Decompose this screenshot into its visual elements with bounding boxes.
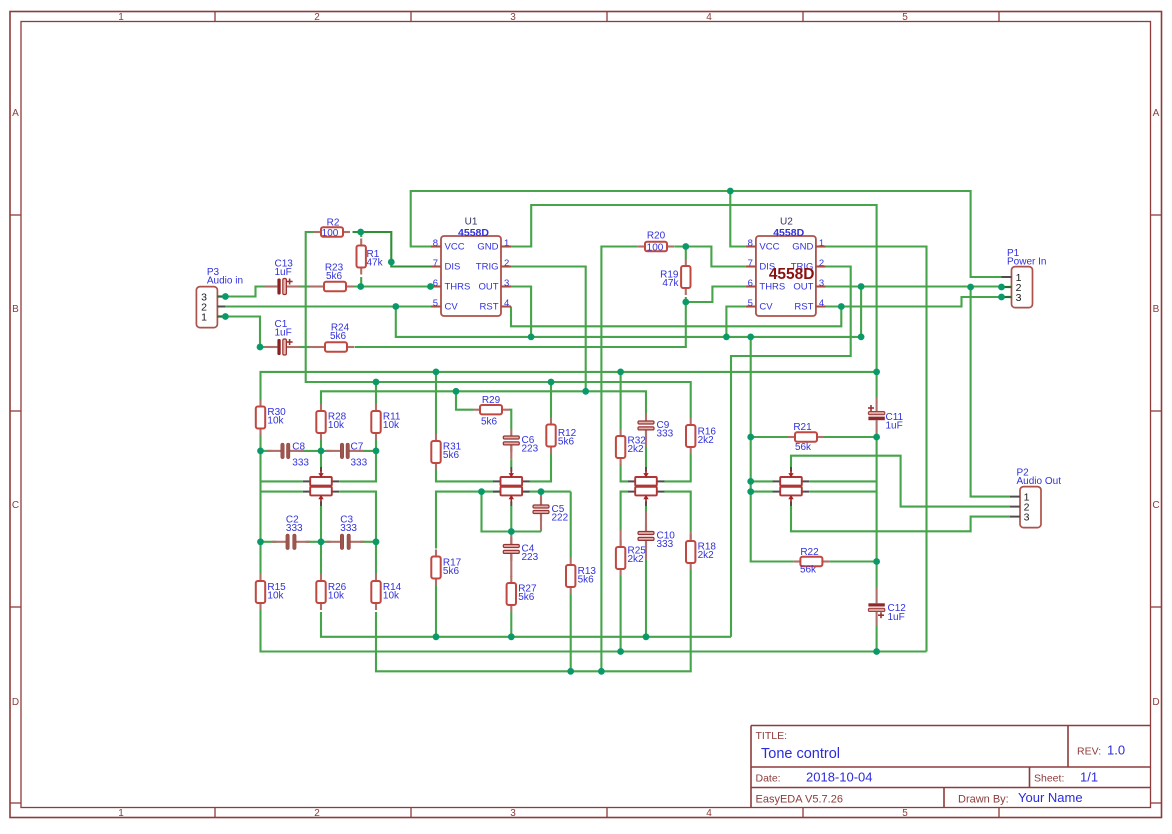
wire R26 riser xyxy=(320,542,322,574)
resistor R21 xyxy=(788,432,824,441)
wire pot3 bottom wiper to C10 xyxy=(645,506,647,512)
svg-text:2k2: 2k2 xyxy=(698,550,715,561)
svg-text:56k: 56k xyxy=(795,442,812,453)
svg-text:47k: 47k xyxy=(662,278,679,289)
node Hb right end xyxy=(858,334,865,341)
wire R17 bottom riser xyxy=(435,586,437,637)
wire R24 left lead xyxy=(309,346,318,348)
wire U2 OUT riser to Hb xyxy=(860,287,862,337)
svg-text:B: B xyxy=(1153,304,1160,315)
wire He tap R11 xyxy=(375,382,377,405)
svg-text:C7: C7 xyxy=(351,442,364,453)
node pot4 top left xyxy=(747,478,754,485)
node R1 bottom xyxy=(357,283,364,290)
node R19 top xyxy=(682,243,689,250)
svg-text:1: 1 xyxy=(201,311,207,323)
wire pot1 top right xyxy=(340,451,377,482)
svg-text:222: 222 xyxy=(552,513,569,524)
svg-text:GND: GND xyxy=(477,241,498,252)
svg-text:CV: CV xyxy=(759,301,773,312)
svg-text:5k6: 5k6 xyxy=(578,575,595,586)
svg-text:R21: R21 xyxy=(793,422,812,433)
node P1 pin2 column xyxy=(967,284,974,291)
wire U1 OUT riser xyxy=(511,287,531,337)
node He R11 xyxy=(373,379,380,386)
svg-text:56k: 56k xyxy=(800,565,817,576)
node rail671 R20col xyxy=(598,668,605,675)
svg-text:Date:: Date: xyxy=(756,773,781,785)
wire C11 bottom to R21 xyxy=(876,434,878,589)
potentiometer RP1 xyxy=(303,467,340,506)
wire C4 to R27 lead xyxy=(510,554,512,578)
svg-text:THRS: THRS xyxy=(759,281,785,292)
resistor R19 xyxy=(681,259,690,295)
capacitor C9 xyxy=(638,414,654,437)
node U1 THRS xyxy=(427,283,434,290)
wire R20 right to U2 DIS xyxy=(674,247,746,267)
wire pot1 bottom right xyxy=(340,492,377,542)
wire pot4 bottom left xyxy=(751,491,774,493)
wire U2 VCC riser xyxy=(730,191,746,247)
resistor R18 xyxy=(686,534,695,570)
svg-text:GND: GND xyxy=(792,241,813,252)
svg-text:3: 3 xyxy=(1024,511,1030,523)
wire R16 bottom to pot3 right xyxy=(664,454,691,481)
node U2 RST xyxy=(838,303,845,310)
wire U2 RST to P1 pin3 xyxy=(826,297,1002,307)
wire Hd rail R30 to C11 column xyxy=(261,372,877,400)
wire rail 671 xyxy=(376,570,691,671)
wire C2 row left xyxy=(261,541,277,543)
wire R1 top lead join xyxy=(360,232,362,237)
wire rail 637 xyxy=(321,612,731,637)
resistor R27 xyxy=(507,576,516,612)
svg-text:6: 6 xyxy=(748,278,753,289)
capacitor C5 xyxy=(533,498,549,521)
wire U2 CV riser xyxy=(726,307,746,337)
svg-text:4: 4 xyxy=(504,298,509,309)
potentiometer RP3 xyxy=(628,467,665,506)
svg-text:R20: R20 xyxy=(647,231,666,242)
resistor R16 xyxy=(686,418,695,454)
svg-text:Your Name: Your Name xyxy=(1018,790,1083,805)
node C2 C3 mid xyxy=(318,538,325,545)
wire Hb to R22 left column xyxy=(751,337,794,562)
resistor R25 xyxy=(616,540,625,576)
svg-text:2k2: 2k2 xyxy=(698,435,715,446)
svg-text:100: 100 xyxy=(322,228,339,239)
svg-text:8: 8 xyxy=(433,238,438,249)
wire C9 bottom lead xyxy=(645,430,647,447)
wire C10 bottom riser xyxy=(645,560,647,637)
resistor R2 xyxy=(314,227,350,236)
svg-text:7: 7 xyxy=(748,258,753,269)
wire R2 right to U1 DIS (dark) xyxy=(353,232,432,267)
svg-text:5k6: 5k6 xyxy=(330,331,347,342)
svg-text:223: 223 xyxy=(522,552,539,563)
wire R11 bottom join xyxy=(375,440,377,451)
node rail637 R27 xyxy=(508,633,515,640)
svg-text:10k: 10k xyxy=(267,416,284,427)
wire Hd tap R32 xyxy=(620,372,622,429)
svg-text:333: 333 xyxy=(292,458,309,469)
wire R22 right xyxy=(829,560,876,562)
wire R24 to R19 bottom xyxy=(355,287,746,348)
node R19 bottom xyxy=(682,299,689,306)
wire C9 bottom to pot3 wiper xyxy=(645,447,647,468)
node pot2 wiper xyxy=(508,528,515,535)
svg-text:Power In: Power In xyxy=(1007,257,1046,268)
svg-text:10k: 10k xyxy=(328,591,345,602)
resistor R24 xyxy=(318,342,354,351)
wire C5 bottom loop xyxy=(482,492,542,532)
connector P3 xyxy=(196,287,225,328)
resistor R13 xyxy=(566,558,575,594)
svg-text:5: 5 xyxy=(902,808,908,819)
wire pot1 bottom wiper xyxy=(320,506,322,542)
capacitor C2 xyxy=(272,534,310,550)
wire P1 pin2 column to P2 pin1 xyxy=(971,287,1010,497)
capacitor C4 xyxy=(503,538,519,561)
svg-text:1: 1 xyxy=(118,808,124,819)
op-amp U2 xyxy=(746,236,826,316)
resistor R30 xyxy=(256,400,265,436)
node P3 pin1 xyxy=(222,313,229,320)
resistor R32 xyxy=(616,429,625,465)
svg-text:10k: 10k xyxy=(267,591,284,602)
wire C5 bottom lead xyxy=(540,514,542,532)
svg-text:R22: R22 xyxy=(800,547,819,558)
wire pot2 bottom row xyxy=(436,492,571,549)
svg-text:Sheet:: Sheet: xyxy=(1034,773,1064,785)
svg-text:RST: RST xyxy=(480,301,499,312)
svg-text:1uF: 1uF xyxy=(888,612,905,623)
potentiometer RP2 xyxy=(493,467,530,506)
svg-text:333: 333 xyxy=(351,458,368,469)
wire R15 riser xyxy=(259,542,261,574)
node Hf R29 xyxy=(453,388,460,395)
wire U2 TRIG to Hc to rail 637 xyxy=(731,267,851,637)
node U1 OUT riser xyxy=(528,334,535,341)
wire U1 RST to Ha to U2 RST xyxy=(511,307,841,327)
resistor R29 xyxy=(473,405,509,414)
node C2 left xyxy=(257,538,264,545)
svg-text:2: 2 xyxy=(314,808,320,819)
node C1 corner xyxy=(257,344,264,351)
node U2 CV riser xyxy=(723,334,730,341)
svg-text:1/1: 1/1 xyxy=(1080,770,1098,785)
wire pot2 top right to R12 xyxy=(529,454,551,482)
wire C8 row left xyxy=(261,450,272,452)
svg-text:3: 3 xyxy=(510,808,516,819)
resistor R11 xyxy=(371,404,380,440)
node rail651 R25 xyxy=(617,648,624,655)
resistor R26 xyxy=(316,574,325,610)
wire R27 bottom riser xyxy=(510,612,512,637)
svg-text:5k6: 5k6 xyxy=(443,450,460,461)
wire R25 bottom riser xyxy=(620,576,622,652)
wire R19 bottom lead join xyxy=(685,297,687,302)
wire C5 top lead xyxy=(540,492,542,505)
svg-text:2: 2 xyxy=(504,258,509,269)
svg-text:2: 2 xyxy=(819,258,824,269)
svg-text:REV:: REV: xyxy=(1077,746,1101,758)
svg-text:10k: 10k xyxy=(383,591,400,602)
svg-text:1: 1 xyxy=(504,238,509,249)
resistor R20 xyxy=(638,242,674,251)
wire bottom rail 651 xyxy=(261,610,927,652)
wire C13 to R23 xyxy=(299,285,310,287)
wire R29 right to C6 xyxy=(509,410,511,430)
svg-text:4: 4 xyxy=(706,12,712,23)
node rail637 C10 xyxy=(643,633,650,640)
svg-text:100: 100 xyxy=(647,243,664,254)
node He R12 xyxy=(548,379,555,386)
wire Hd tap R31 xyxy=(435,372,437,434)
svg-text:333: 333 xyxy=(340,523,357,534)
capacitor C11 xyxy=(868,397,885,434)
wire R21 left xyxy=(751,436,789,438)
svg-text:D: D xyxy=(12,697,19,708)
node P1 pin2 xyxy=(998,284,1005,291)
capacitor C8 xyxy=(267,443,304,459)
svg-text:3: 3 xyxy=(504,278,509,289)
svg-text:C8: C8 xyxy=(292,442,305,453)
svg-text:U2: U2 xyxy=(780,216,793,227)
wire pot3 bottom left to R25 xyxy=(621,492,628,530)
svg-text:4558D: 4558D xyxy=(773,227,804,239)
potentiometer RP4 xyxy=(773,467,810,506)
wire R2 left to He rail to R16 xyxy=(306,232,691,418)
svg-text:3: 3 xyxy=(1016,292,1022,304)
node R22 right xyxy=(873,558,880,565)
node R21 left xyxy=(747,434,754,441)
svg-text:1uF: 1uF xyxy=(886,421,903,432)
capacitor C13 xyxy=(265,279,301,295)
svg-text:47k: 47k xyxy=(367,258,384,269)
wire C4 top lead xyxy=(510,532,512,545)
op-amp U1 xyxy=(431,236,511,316)
svg-text:D: D xyxy=(1152,697,1159,708)
svg-text:DIS: DIS xyxy=(445,261,461,272)
wire C12 bottom to rail xyxy=(876,626,878,652)
node U2 VCC rail xyxy=(727,188,734,195)
svg-text:2k2: 2k2 xyxy=(628,554,645,565)
wire VCC rail H1 xyxy=(411,191,1002,277)
node C3 right xyxy=(373,538,380,545)
svg-text:8: 8 xyxy=(748,238,753,249)
wire P3 pin1 to C1 xyxy=(225,317,266,348)
capacitor C7 xyxy=(326,443,363,459)
wire R21 right xyxy=(824,436,877,438)
node pot2 row left xyxy=(478,488,485,495)
wire R20 left long column xyxy=(601,247,638,672)
node C8 C7 mid xyxy=(318,448,325,455)
svg-text:4: 4 xyxy=(706,808,712,819)
node U2 OUT xyxy=(858,283,865,290)
node P3 pin3 xyxy=(222,293,229,300)
wire C3 right xyxy=(360,541,376,543)
wire C10 bottom lead xyxy=(645,540,647,560)
svg-text:2018-10-04: 2018-10-04 xyxy=(806,770,873,785)
svg-text:5k6: 5k6 xyxy=(558,437,575,448)
node rail637 R17 xyxy=(433,633,440,640)
title block xyxy=(751,726,1151,808)
svg-text:5: 5 xyxy=(433,298,438,309)
node Hb pot4 column xyxy=(747,334,754,341)
wire pot1 bottom left stub wire xyxy=(261,491,303,493)
capacitor C1 xyxy=(265,339,301,355)
svg-text:333: 333 xyxy=(657,429,674,440)
wire U1 GND to H2 rail xyxy=(511,205,877,397)
svg-text:4558D: 4558D xyxy=(458,227,489,239)
svg-text:R29: R29 xyxy=(482,395,501,406)
svg-text:Tone control: Tone control xyxy=(761,746,840,762)
svg-text:2: 2 xyxy=(314,12,320,23)
svg-text:VCC: VCC xyxy=(759,241,779,252)
wire R28 bottom join xyxy=(320,440,322,451)
wire pot1 top wiper xyxy=(320,451,322,467)
resistor R28 xyxy=(316,404,325,440)
svg-text:1uF: 1uF xyxy=(275,328,292,339)
svg-text:R2: R2 xyxy=(327,218,340,229)
node P1 pin3 xyxy=(998,294,1005,301)
wire pot4 bottom right xyxy=(810,491,877,493)
node R21 right xyxy=(873,434,880,441)
connector P1 xyxy=(1002,267,1033,308)
wire C6 bottom lead xyxy=(510,445,512,459)
svg-text:Audio in: Audio in xyxy=(207,276,243,287)
wire R13 riser bottom xyxy=(570,594,572,671)
svg-text:223: 223 xyxy=(522,444,539,455)
svg-text:A: A xyxy=(1153,108,1160,119)
resistor R14 xyxy=(371,574,380,610)
wire C6 bottom to pot2 wiper xyxy=(510,460,512,467)
wire CV junction down Hb rail xyxy=(396,307,861,337)
svg-text:CV: CV xyxy=(445,301,459,312)
svg-text:3: 3 xyxy=(510,12,516,23)
svg-text:A: A xyxy=(12,108,19,119)
wire R19 top lead join xyxy=(685,247,687,260)
resistor R22 xyxy=(793,557,829,566)
svg-text:5: 5 xyxy=(902,12,908,23)
node DIS wire xyxy=(388,259,395,266)
node rail671 R13 xyxy=(567,668,574,675)
wire pot2 bottom wiper xyxy=(510,506,512,532)
svg-text:4558D: 4558D xyxy=(769,266,815,283)
svg-text:5k6: 5k6 xyxy=(518,592,535,603)
wire C1 to R24 xyxy=(299,346,310,348)
svg-text:OUT: OUT xyxy=(478,281,498,292)
wire R29 riser xyxy=(456,391,473,409)
wire C8 to C7 mid xyxy=(299,450,332,452)
wire He tap R12 xyxy=(550,382,552,418)
wire R23 to U1 THRS xyxy=(353,285,431,287)
wire pot4 top left xyxy=(751,480,774,482)
wire R18 top lead xyxy=(690,531,692,542)
svg-text:4: 4 xyxy=(819,298,824,309)
wire U1 TRIG down to Hf xyxy=(511,267,586,392)
node R1 top xyxy=(357,229,364,236)
resistor R17 xyxy=(431,550,440,586)
resistor R12 xyxy=(546,418,555,454)
wire pot1 left column xyxy=(259,451,261,542)
svg-text:RST: RST xyxy=(794,301,813,312)
svg-text:C: C xyxy=(12,500,19,511)
wire pot4 bottom wiper to P2 pin3 xyxy=(791,506,1010,531)
svg-text:TRIG: TRIG xyxy=(476,261,499,272)
capacitor C12 xyxy=(868,588,884,626)
node CV branch xyxy=(392,303,399,310)
node pot4 bottom left xyxy=(747,488,754,495)
svg-text:EasyEDA V5.7.26: EasyEDA V5.7.26 xyxy=(756,794,843,806)
resistor R31 xyxy=(431,434,440,470)
wire C2 to C3 xyxy=(306,541,331,543)
resistor R23 xyxy=(317,282,353,291)
wire R13 top to pot2 row xyxy=(570,492,572,558)
svg-text:333: 333 xyxy=(286,523,303,534)
svg-text:3: 3 xyxy=(819,278,824,289)
capacitor C3 xyxy=(326,534,364,550)
svg-text:10k: 10k xyxy=(383,420,400,431)
wire C10 top lead xyxy=(645,512,647,532)
node Hf TRIG xyxy=(582,388,589,395)
svg-text:2k2: 2k2 xyxy=(628,444,645,455)
svg-text:Audio Out: Audio Out xyxy=(1017,476,1062,487)
resistor R15 xyxy=(256,574,265,610)
svg-text:Drawn By:: Drawn By: xyxy=(958,794,1009,806)
wire P3 pin3 to C13 xyxy=(225,287,266,297)
svg-text:333: 333 xyxy=(657,539,674,550)
node Hd R32 xyxy=(617,369,624,376)
svg-text:7: 7 xyxy=(433,258,438,269)
svg-text:1: 1 xyxy=(819,238,824,249)
wire R32 bottom to pot3 left xyxy=(621,464,628,481)
svg-text:OUT: OUT xyxy=(793,281,813,292)
wire R23 left lead xyxy=(309,285,317,287)
node C5 top xyxy=(538,488,545,495)
node Hd R31 xyxy=(433,369,440,376)
wire R31 bottom to pot2 left xyxy=(436,470,493,481)
svg-text:TITLE:: TITLE: xyxy=(756,730,788,742)
wire R25 top lead xyxy=(620,530,622,547)
wire pot3 bottom right to R18 xyxy=(664,492,691,531)
wire U2 GND down to bottom rail xyxy=(826,247,927,652)
svg-text:U1: U1 xyxy=(465,216,478,227)
wire C7 right xyxy=(358,450,376,452)
capacitor C10 xyxy=(638,525,654,548)
svg-text:1: 1 xyxy=(118,12,124,23)
wire P3 pin2 to U1 CV xyxy=(225,305,431,307)
wire R30 bottom to C8 row xyxy=(259,435,261,451)
node C7 right xyxy=(373,448,380,455)
svg-text:5k6: 5k6 xyxy=(481,417,498,428)
wire U2 OUT to P1 pin2 xyxy=(826,285,1002,287)
svg-text:B: B xyxy=(12,304,19,315)
svg-text:VCC: VCC xyxy=(445,241,465,252)
node C8 left xyxy=(257,448,264,455)
svg-text:C: C xyxy=(1152,500,1159,511)
wire pot1 top left stub wire xyxy=(261,480,303,482)
node Hd-C11 column xyxy=(873,369,880,376)
connector P2 xyxy=(1010,487,1041,528)
wire pot4 top right xyxy=(810,480,877,482)
wire pot4 top wiper to P2 pin2 xyxy=(791,456,1010,507)
svg-text:5k6: 5k6 xyxy=(326,271,343,282)
wire R1 bottom lead join xyxy=(360,277,362,287)
svg-text:10k: 10k xyxy=(328,420,345,431)
node C12 rail xyxy=(873,648,880,655)
